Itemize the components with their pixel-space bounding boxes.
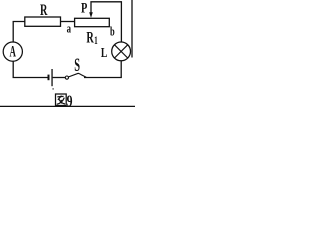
svg-text:1: 1 [94, 35, 98, 47]
svg-text:9: 9 [67, 92, 73, 110]
svg-text:a: a [67, 21, 72, 35]
svg-text:P: P [81, 1, 87, 17]
svg-text:b: b [110, 25, 115, 39]
svg-text:L: L [101, 45, 108, 60]
svg-text:A: A [10, 44, 17, 61]
svg-text:S: S [74, 56, 80, 76]
svg-text:R: R [40, 0, 48, 19]
